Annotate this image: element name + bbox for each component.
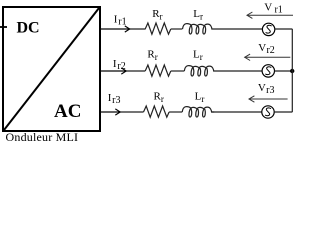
wire inductor to source phase1 xyxy=(215,28,263,30)
wire inverter to resistor R2 xyxy=(100,70,145,72)
inverter U1 box xyxy=(3,7,100,131)
arrow Ir2 xyxy=(100,68,126,74)
inductor Lr phase1 xyxy=(183,24,215,34)
wire source3 to bus xyxy=(274,111,292,113)
arrow Ir1 xyxy=(100,26,130,32)
svg-text:AC: AC xyxy=(54,101,81,122)
wire source1 to bus xyxy=(275,28,293,30)
wire inverter to resistor R3 xyxy=(100,111,144,113)
inductor Lr phase3 xyxy=(182,107,214,117)
wire inverter to resistor R1 xyxy=(100,28,146,30)
wire inductor to source phase3 xyxy=(212,111,262,113)
AC source V1 circle xyxy=(262,23,274,35)
wire inductor to source phase2 xyxy=(217,70,263,72)
wire resistor to inductor phase2 xyxy=(171,70,185,72)
arrow Vr2 xyxy=(245,54,291,60)
svg-text:Onduleur MLI: Onduleur MLI xyxy=(6,130,79,143)
arrow Ir3 xyxy=(100,109,120,115)
resistor Rr phase2 xyxy=(145,65,171,76)
inverter diagonal xyxy=(4,8,99,130)
AC source V2 circle xyxy=(262,65,274,77)
inductor Lr phase2 xyxy=(184,66,216,76)
wire resistor to inductor phase3 xyxy=(169,111,182,113)
AC source V3 circle xyxy=(262,106,274,118)
resistor Rr phase1 xyxy=(145,23,171,34)
junction dot phase2 xyxy=(290,69,294,73)
sine glyph V3 xyxy=(265,108,271,116)
sine glyph V1 xyxy=(266,25,272,33)
svg-text:DC: DC xyxy=(17,19,40,36)
wire source2 to bus xyxy=(275,70,293,72)
arrow Vr1 xyxy=(247,12,293,18)
wire resistor to inductor phase1 xyxy=(171,28,183,30)
right bus wire xyxy=(291,29,293,112)
DC input stub xyxy=(0,26,7,28)
arrow Vr3 xyxy=(249,96,288,102)
sine glyph V2 xyxy=(265,67,271,75)
resistor Rr phase3 xyxy=(144,106,170,117)
